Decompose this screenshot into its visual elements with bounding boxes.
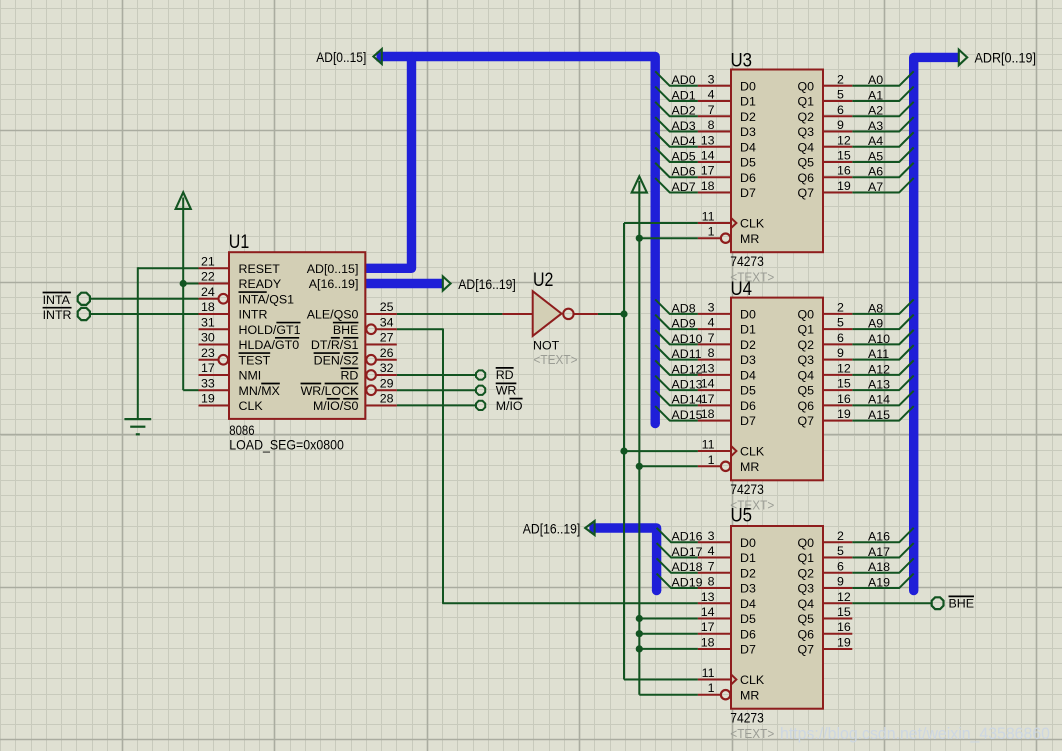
U3 left pin stubs (698, 86, 737, 243)
svg-text:14: 14 (701, 377, 715, 391)
svg-text:Q6: Q6 (797, 399, 814, 413)
svg-text:A6: A6 (868, 165, 883, 179)
svg-text:A12: A12 (868, 362, 890, 376)
svg-text:AD[0..15]: AD[0..15] (307, 262, 359, 276)
svg-text:D4: D4 (740, 368, 756, 382)
svg-text:23: 23 (201, 346, 215, 360)
svg-text:2: 2 (837, 72, 844, 86)
svg-text:D0: D0 (740, 536, 756, 550)
svg-text:HLDA/GT0: HLDA/GT0 (239, 338, 300, 352)
svg-text:D5: D5 (740, 156, 756, 170)
svg-text:1: 1 (708, 681, 715, 695)
ground (124, 419, 151, 434)
svg-text:AD13: AD13 (672, 378, 703, 392)
U5 right pin stubs (823, 542, 852, 649)
U4 left pin stubs (698, 314, 737, 471)
svg-text:D2: D2 (740, 338, 756, 352)
U4 right pin stubs (823, 314, 852, 421)
svg-text:A4: A4 (868, 134, 883, 148)
svg-text:A17: A17 (868, 545, 890, 559)
wire BHE: U1 pin 34 to U5 pin 13 (397, 329, 698, 603)
svg-text:AD15: AD15 (672, 408, 703, 422)
svg-text:INTR: INTR (43, 308, 72, 322)
wire ALE: U1 pin 25 to U2 input (397, 313, 503, 315)
svg-text:25: 25 (380, 300, 394, 314)
svg-text:21: 21 (201, 255, 215, 269)
svg-text:Q7: Q7 (797, 414, 814, 428)
svg-text:WR/LOCK: WR/LOCK (301, 384, 360, 398)
svg-text:HOLD/GT1: HOLD/GT1 (239, 323, 301, 337)
svg-text:D7: D7 (740, 643, 756, 657)
wires AD8-AD15 bus taps to U4 (655, 299, 698, 420)
svg-text:18: 18 (701, 179, 715, 193)
wire to U5 pin 18 (639, 648, 698, 650)
svg-text:AD2: AD2 (672, 104, 696, 118)
wire VCC to U1 pin 22 (READY) (183, 283, 198, 285)
svg-text:Q3: Q3 (797, 353, 814, 367)
wires AD0-AD7 bus taps to U3 (655, 71, 698, 192)
svg-text:DEN/S2: DEN/S2 (314, 353, 359, 367)
svg-text:19: 19 (837, 179, 851, 193)
svg-text:AD12: AD12 (672, 362, 703, 376)
svg-text:AD17: AD17 (672, 545, 703, 559)
svg-text:D5: D5 (740, 384, 756, 398)
svg-text:LOAD_SEG=0x0800: LOAD_SEG=0x0800 (229, 438, 344, 453)
svg-text:AD[0..15]: AD[0..15] (316, 50, 366, 66)
svg-text:18: 18 (701, 407, 715, 421)
svg-text:AD18: AD18 (672, 560, 703, 574)
svg-text:D3: D3 (740, 582, 756, 596)
latch 74273 U5 (731, 526, 823, 709)
svg-text:Q2: Q2 (797, 338, 814, 352)
svg-text:AD16: AD16 (672, 530, 703, 544)
svg-text:22: 22 (201, 270, 215, 284)
U3 right pin stubs (823, 86, 852, 193)
junction U5 pin 14 (636, 615, 643, 622)
U1 right pin stubs (365, 314, 397, 405)
svg-text:16: 16 (837, 392, 851, 406)
net labels A0-A7 (868, 73, 883, 194)
svg-text:AD3: AD3 (672, 119, 696, 133)
svg-text:3: 3 (708, 72, 715, 86)
svg-text:CLK: CLK (740, 673, 765, 687)
svg-text:AD14: AD14 (672, 393, 703, 407)
svg-text:Q5: Q5 (797, 384, 814, 398)
svg-text:14: 14 (701, 149, 715, 163)
net labels AD16-AD19 (672, 530, 703, 590)
svg-text:24: 24 (201, 285, 215, 299)
net labels AD0-AD7 (672, 73, 696, 194)
svg-text:74273: 74273 (730, 254, 764, 269)
svg-text:AD[16..19]: AD[16..19] (523, 522, 581, 538)
terminal INTA (43, 293, 90, 307)
bus terminal arrow AD[16..19] (at U5) (585, 521, 594, 535)
svg-text:NMI: NMI (239, 369, 262, 383)
svg-text:Q1: Q1 (797, 95, 814, 109)
svg-text:NOT: NOT (533, 339, 560, 353)
svg-text:2: 2 (837, 300, 844, 314)
svg-text:A13: A13 (868, 378, 890, 392)
wire to U4 MR (639, 465, 698, 467)
svg-text:7: 7 (708, 331, 715, 345)
svg-text:Q1: Q1 (797, 323, 814, 337)
svg-text:Q4: Q4 (797, 597, 814, 611)
U2 output pin (574, 313, 598, 315)
svg-text:AD10: AD10 (672, 332, 703, 346)
svg-text:9: 9 (837, 118, 844, 132)
svg-text:D6: D6 (740, 171, 756, 185)
svg-text:BHE: BHE (949, 597, 974, 611)
svg-text:AD11: AD11 (672, 347, 702, 361)
terminal INTR (43, 308, 90, 322)
svg-text:6: 6 (837, 103, 844, 117)
svg-text:16: 16 (837, 164, 851, 178)
wire M/IO to terminal (397, 404, 476, 406)
U3 left pin numbers (701, 72, 715, 238)
svg-text:D1: D1 (740, 95, 756, 109)
U4 right pin numbers (837, 300, 851, 421)
vertical CLK net wire (623, 223, 625, 680)
svg-text:WR: WR (496, 384, 517, 398)
svg-text:2: 2 (837, 529, 844, 543)
wire INTA terminal to U1 pin 24 (90, 298, 199, 300)
svg-text:AD5: AD5 (672, 149, 696, 163)
svg-text:11: 11 (702, 209, 715, 223)
8086 CPU U1 (229, 252, 365, 419)
svg-text:74273: 74273 (730, 711, 764, 726)
svg-text:A10: A10 (868, 332, 890, 346)
svg-text:A3: A3 (868, 119, 883, 133)
svg-text:Q2: Q2 (797, 566, 814, 580)
svg-text:A16: A16 (868, 530, 890, 544)
svg-text:13: 13 (701, 133, 715, 147)
junction U3 MR (636, 235, 643, 242)
terminal M/IO (476, 399, 523, 413)
svg-text:D6: D6 (740, 399, 756, 413)
svg-text:AD19: AD19 (672, 575, 703, 589)
terminal RD (476, 368, 514, 382)
wires A16-A19 from U5 to ADR bus (852, 528, 913, 588)
svg-text:A[16..19]: A[16..19] (309, 277, 359, 291)
svg-text:AD0: AD0 (672, 73, 696, 87)
svg-text:18: 18 (201, 300, 215, 314)
wire to U4 CLK (624, 450, 698, 452)
wire to U3 MR (639, 237, 698, 239)
svg-text:19: 19 (201, 392, 215, 406)
svg-text:AD8: AD8 (672, 301, 696, 315)
bus AD[0..15] top/left (651, 419, 660, 428)
U5 right pin numbers (837, 529, 851, 650)
bus ADR[0..19] right (914, 57, 959, 590)
svg-text:A14: A14 (868, 393, 890, 407)
svg-text:Q0: Q0 (797, 308, 814, 322)
svg-text:D1: D1 (740, 323, 756, 337)
svg-text:4: 4 (708, 316, 715, 330)
svg-text:19: 19 (837, 635, 851, 649)
svg-text:INTA/QS1: INTA/QS1 (239, 292, 295, 306)
svg-text:Q1: Q1 (797, 551, 814, 565)
svg-text:AD9: AD9 (672, 317, 696, 331)
svg-text:13: 13 (701, 361, 715, 375)
bus terminal arrow AD[0..15] (373, 49, 381, 64)
svg-text:Q7: Q7 (797, 186, 814, 200)
svg-text:U4: U4 (731, 279, 753, 300)
svg-text:1: 1 (708, 453, 715, 467)
svg-text:A5: A5 (868, 149, 883, 163)
svg-text:CLK: CLK (740, 445, 765, 459)
svg-text:AD1: AD1 (672, 88, 696, 102)
wire NOT output to CLK net (598, 313, 624, 315)
svg-text:5: 5 (837, 88, 844, 102)
latch 74273 U4 (731, 298, 823, 481)
svg-text:15: 15 (837, 605, 851, 619)
svg-text:4: 4 (708, 88, 715, 102)
wire RESET net: ground to U1 pin 21 (138, 267, 199, 419)
svg-text:D4: D4 (740, 140, 756, 154)
svg-text:7: 7 (708, 103, 715, 117)
junction U5 pin 18 (636, 645, 643, 652)
svg-text:A8: A8 (868, 301, 883, 315)
svg-text:Q5: Q5 (797, 156, 814, 170)
svg-text:Q4: Q4 (797, 368, 814, 382)
svg-text:17: 17 (201, 361, 215, 375)
wire WR to terminal (397, 389, 476, 391)
svg-text:READY: READY (239, 277, 282, 291)
wire RD to terminal (397, 374, 476, 376)
wire U5 Q4 to BHE terminal (852, 602, 931, 604)
U1 left pin numbers (201, 255, 215, 406)
svg-text:A1: A1 (868, 88, 883, 102)
svg-text:Q4: Q4 (797, 140, 814, 154)
svg-text:A15: A15 (868, 408, 890, 422)
svg-text:12: 12 (837, 590, 851, 604)
svg-text:6: 6 (837, 559, 844, 573)
svg-text:CLK: CLK (740, 217, 765, 231)
svg-text:A18: A18 (868, 560, 890, 574)
svg-text:18: 18 (701, 635, 715, 649)
svg-text:D2: D2 (740, 566, 756, 580)
svg-text:7: 7 (708, 559, 715, 573)
bus terminal arrow ADR[0..19] (959, 50, 967, 66)
svg-text:A19: A19 (868, 575, 890, 589)
svg-text:26: 26 (380, 346, 394, 360)
svg-text:74273: 74273 (730, 482, 764, 497)
svg-text:Q6: Q6 (797, 627, 814, 641)
svg-text:<TEXT>: <TEXT> (730, 726, 774, 741)
svg-text:8: 8 (708, 118, 715, 132)
svg-text:12: 12 (837, 133, 851, 147)
U1 left pin names (239, 262, 301, 413)
svg-text:BHE: BHE (333, 323, 358, 337)
wire to U3 CLK (624, 222, 698, 224)
NOT gate U2 (533, 291, 574, 336)
svg-text:D0: D0 (740, 308, 756, 322)
U1 right pin names (301, 262, 360, 413)
svg-text:A11: A11 (868, 347, 889, 361)
net labels AD8-AD15 (672, 301, 703, 422)
svg-text:MR: MR (740, 232, 759, 246)
bus A[16..19] from U1 (367, 279, 443, 288)
wire VCC to U1 pin 33 (MN/MX) (183, 389, 198, 391)
svg-text:11: 11 (702, 666, 715, 680)
wires AD16-AD19 bus taps to U5 (657, 528, 698, 588)
svg-text:8086: 8086 (229, 423, 255, 438)
svg-text:M/IO: M/IO (496, 399, 523, 413)
svg-text:28: 28 (380, 392, 394, 406)
svg-text:12: 12 (837, 361, 851, 375)
svg-text:Q0: Q0 (797, 79, 814, 93)
svg-text:A2: A2 (868, 104, 883, 118)
wire to U5 pin 17 (639, 633, 698, 635)
svg-text:D2: D2 (740, 110, 756, 124)
svg-text:MR: MR (740, 688, 759, 702)
U5 left pin stubs (698, 542, 737, 699)
svg-text:A9: A9 (868, 317, 883, 331)
svg-text:8: 8 (708, 346, 715, 360)
svg-text:A0: A0 (868, 73, 883, 87)
svg-text:M/IO/S0: M/IO/S0 (313, 399, 359, 413)
wire to U5 MR (639, 694, 698, 696)
svg-text:8: 8 (708, 575, 715, 589)
svg-text:RD: RD (340, 369, 358, 383)
svg-text:Q6: Q6 (797, 171, 814, 185)
terminal WR (476, 383, 516, 397)
junction NOT output (620, 310, 627, 317)
svg-text:Q2: Q2 (797, 110, 814, 124)
U3 pin names (740, 79, 814, 245)
svg-text:5: 5 (837, 316, 844, 330)
svg-text:5: 5 (837, 544, 844, 558)
U5 pin names (740, 536, 814, 702)
wires A0-A7 from U3 to ADR bus (852, 71, 913, 192)
svg-text:D1: D1 (740, 551, 756, 565)
svg-text:RD: RD (496, 368, 514, 382)
svg-text:D7: D7 (740, 414, 756, 428)
svg-text:27: 27 (380, 331, 394, 345)
svg-text:30: 30 (201, 331, 215, 345)
latch 74273 U3 (731, 70, 823, 253)
svg-text:D5: D5 (740, 612, 756, 626)
U3 right pin numbers (837, 72, 851, 193)
wire to U5 CLK (624, 679, 698, 681)
svg-text:Q0: Q0 (797, 536, 814, 550)
svg-text:6: 6 (837, 331, 844, 345)
svg-text:Q7: Q7 (797, 643, 814, 657)
U4 pin names (740, 308, 814, 474)
svg-text:34: 34 (380, 315, 394, 329)
svg-text:19: 19 (837, 407, 851, 421)
svg-text:AD4: AD4 (672, 134, 696, 148)
wires A8-A15 from U4 to ADR bus (852, 299, 913, 420)
U2 input pin (502, 313, 532, 315)
svg-text:11: 11 (702, 438, 715, 452)
svg-text:ALE/QS0: ALE/QS0 (307, 308, 359, 322)
svg-text:INTR: INTR (239, 308, 268, 322)
svg-text:AD6: AD6 (672, 165, 696, 179)
svg-text:AD7: AD7 (672, 180, 696, 194)
net labels A8-A15 (868, 301, 890, 422)
svg-text:<TEXT>: <TEXT> (534, 352, 578, 367)
U1 left pin stubs (199, 268, 230, 405)
svg-text:ADR[0..19]: ADR[0..19] (975, 50, 1037, 66)
svg-text:AD[16..19]: AD[16..19] (458, 277, 516, 293)
power symbol near U3 (632, 176, 647, 694)
svg-text:4: 4 (708, 544, 715, 558)
svg-text:Q3: Q3 (797, 125, 814, 139)
svg-text:U1: U1 (229, 232, 249, 253)
svg-text:CLK: CLK (239, 399, 264, 413)
svg-text:13: 13 (701, 590, 715, 604)
svg-text:U5: U5 (731, 506, 753, 527)
svg-text:16: 16 (837, 620, 851, 634)
U4 left pin numbers (701, 300, 715, 466)
svg-text:9: 9 (837, 346, 844, 360)
junction U4 MR (636, 463, 643, 470)
svg-text:17: 17 (701, 392, 715, 406)
junction U5 pin 17 (636, 630, 643, 637)
svg-text:U3: U3 (731, 51, 753, 72)
svg-text:29: 29 (380, 376, 394, 390)
bus AD[16..19] at U5 (652, 586, 661, 595)
svg-text:Q5: Q5 (797, 612, 814, 626)
svg-text:TEST: TEST (239, 353, 271, 367)
svg-text:15: 15 (837, 149, 851, 163)
wire INTR terminal to U1 pin 18 (90, 313, 199, 315)
svg-text:3: 3 (708, 300, 715, 314)
svg-text:3: 3 (708, 529, 715, 543)
svg-text:17: 17 (701, 164, 715, 178)
svg-text:D3: D3 (740, 125, 756, 139)
svg-text:DT/R/S1: DT/R/S1 (311, 338, 359, 352)
svg-text:https://blog.csdn.net/weixin_4: https://blog.csdn.net/weixin_43586860 (780, 724, 1050, 743)
svg-text:17: 17 (701, 620, 715, 634)
svg-text:MN/MX: MN/MX (239, 384, 280, 398)
terminal BHE (932, 596, 974, 610)
svg-text:D7: D7 (740, 186, 756, 200)
bus terminal arrow AD[16..19] (output of U1) (443, 276, 451, 290)
junction U4 CLK (620, 448, 627, 455)
svg-text:D6: D6 (740, 627, 756, 641)
power symbol near U1 (176, 192, 191, 390)
svg-text:33: 33 (201, 376, 215, 390)
svg-text:MR: MR (740, 460, 759, 474)
svg-text:INTA: INTA (43, 293, 71, 307)
svg-text:9: 9 (837, 575, 844, 589)
svg-text:32: 32 (380, 361, 394, 375)
svg-text:15: 15 (837, 377, 851, 391)
svg-text:1: 1 (708, 225, 715, 239)
svg-text:31: 31 (201, 315, 215, 329)
svg-text:Q3: Q3 (797, 582, 814, 596)
svg-text:D0: D0 (740, 79, 756, 93)
svg-text:A7: A7 (868, 180, 883, 194)
U5 left pin numbers (701, 529, 715, 695)
svg-text:U2: U2 (533, 270, 553, 291)
svg-text:D4: D4 (740, 597, 756, 611)
junction at READY row (180, 280, 187, 287)
net labels A16-A19 (868, 530, 890, 590)
U1 right pin numbers (380, 300, 394, 405)
svg-text:D3: D3 (740, 353, 756, 367)
svg-text:14: 14 (701, 605, 715, 619)
wire to U5 pin 14 (639, 618, 698, 620)
svg-text:RESET: RESET (239, 262, 281, 276)
